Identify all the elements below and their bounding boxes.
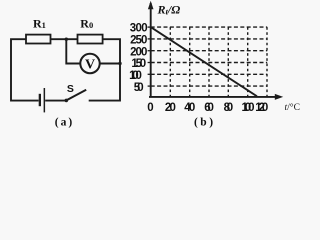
svg-text:S: S (67, 83, 74, 95)
svg-text:150: 150 (131, 58, 146, 70)
svg-text:Rt/Ω: Rt/Ω (157, 2, 181, 16)
svg-text:120: 120 (255, 102, 268, 114)
svg-text:200: 200 (130, 46, 147, 58)
svg-text:40: 40 (184, 102, 195, 114)
svg-text:80: 80 (224, 102, 234, 114)
svg-text:50: 50 (134, 82, 144, 94)
svg-text:(b): (b) (194, 117, 213, 129)
svg-text:(a): (a) (55, 116, 73, 128)
svg-text:60: 60 (204, 102, 214, 114)
svg-text:t/°C: t/°C (285, 102, 300, 113)
svg-text:250: 250 (130, 35, 147, 47)
svg-text:100: 100 (129, 70, 142, 82)
svg-text:300: 300 (130, 23, 148, 35)
svg-text:V: V (85, 57, 95, 72)
svg-text:0: 0 (147, 102, 153, 114)
svg-text:100: 100 (241, 102, 254, 114)
svg-text:20: 20 (165, 102, 176, 114)
